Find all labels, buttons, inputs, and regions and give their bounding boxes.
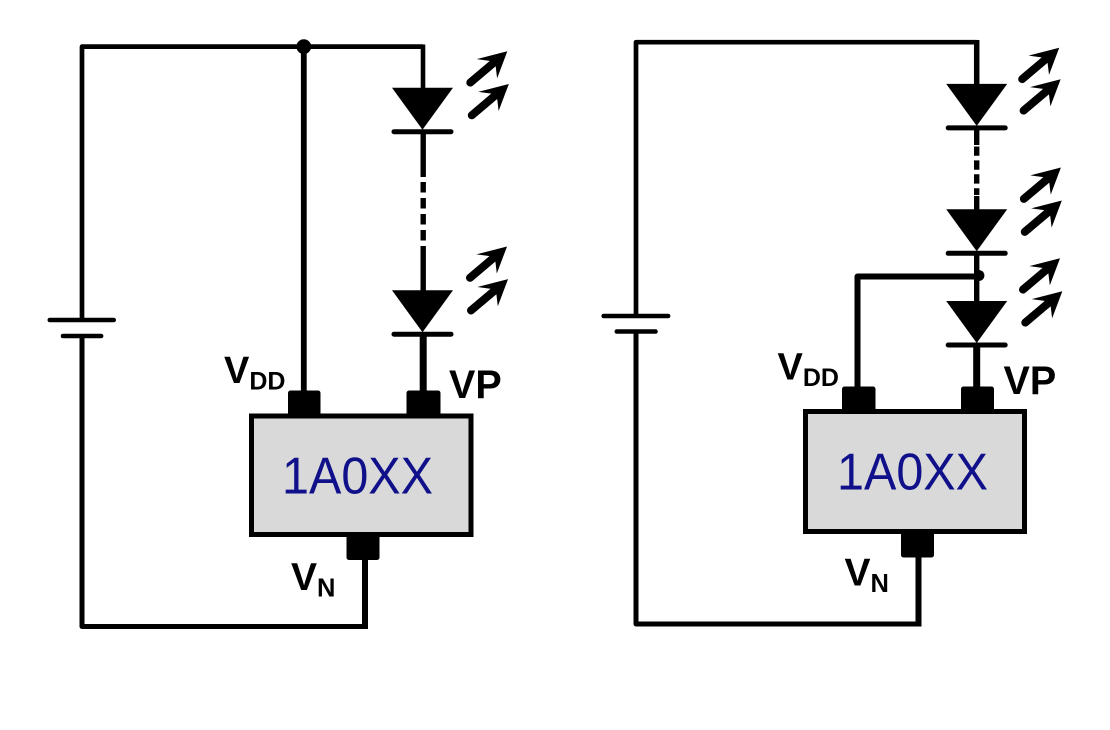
IC U2 body: [806, 412, 1025, 532]
wire: dotted continuation (more LEDs): [421, 182, 426, 241]
LED D3: [946, 84, 1007, 128]
node: junction dot on top rail: [296, 39, 311, 54]
wire: D3 cathode lead: [974, 130, 979, 146]
svg-text:VP: VP: [1004, 359, 1057, 403]
battery BT1 short plate: [63, 334, 101, 339]
wire: top rail corner down to LED D3 anode: [974, 40, 980, 86]
light arrows of LED D4: [1015, 157, 1070, 210]
battery BT1 long plate: [50, 318, 114, 323]
svg-text:1A0XX: 1A0XX: [282, 448, 433, 506]
svg-text:1A0XX: 1A0XX: [837, 444, 988, 502]
wire: D4 cathode to LED D5 anode: [974, 255, 979, 303]
LED D5: [946, 301, 1007, 345]
wire: battery negative down, bottom rail, up to VN pin: [636, 334, 918, 625]
LED D1: [392, 88, 453, 132]
wire: tap from junction to VDD pin: [858, 277, 980, 389]
wire: lead into LED D4: [974, 196, 979, 211]
light arrows of LED D2: [461, 236, 516, 289]
light arrows of LED D1: [461, 41, 516, 94]
wire: VN pin riser: [362, 557, 368, 629]
LED D4: [946, 209, 1007, 253]
pin VP (U1): [407, 391, 441, 417]
svg-text:VDD: VDD: [778, 347, 839, 393]
wire: D2 cathode to VP pin: [420, 336, 427, 392]
svg-text:VN: VN: [845, 552, 889, 599]
light arrows of LED D3: [1013, 37, 1068, 90]
wire: battery positive up and top rail to LED string: [82, 47, 423, 320]
LED D2: [392, 290, 453, 334]
wire: D5 cathode to VP pin: [973, 346, 980, 388]
wire: top rail corner down to LED D1 anode: [421, 45, 426, 91]
svg-text:VDD: VDD: [224, 350, 285, 396]
wire: battery positive up and top rail to LED string: [636, 42, 977, 316]
pin VP (U2): [961, 387, 994, 413]
IC U1 body: [252, 416, 472, 535]
battery BT2 long plate: [604, 314, 668, 319]
wire: D1 cathode lead: [421, 133, 426, 177]
pin VN (U1): [347, 534, 380, 560]
pin VDD (U1): [288, 391, 321, 417]
wire: VN pin riser: [916, 555, 922, 627]
node: junction dot between D4 and D5: [974, 270, 985, 281]
wire: dotted continuation (more LEDs): [974, 147, 979, 196]
pin VN (U2): [901, 532, 934, 558]
svg-text:VN: VN: [291, 556, 335, 603]
wire: junction down to VDD pin: [301, 47, 307, 392]
battery BT2 short plate: [617, 329, 656, 334]
pin VDD (U2): [842, 387, 876, 413]
svg-text:VP: VP: [449, 363, 502, 407]
light arrows of LED D5: [1014, 248, 1069, 301]
wire: lead into LED D2: [421, 246, 426, 292]
wire: battery negative down, bottom rail, up to VN pin: [82, 338, 364, 627]
